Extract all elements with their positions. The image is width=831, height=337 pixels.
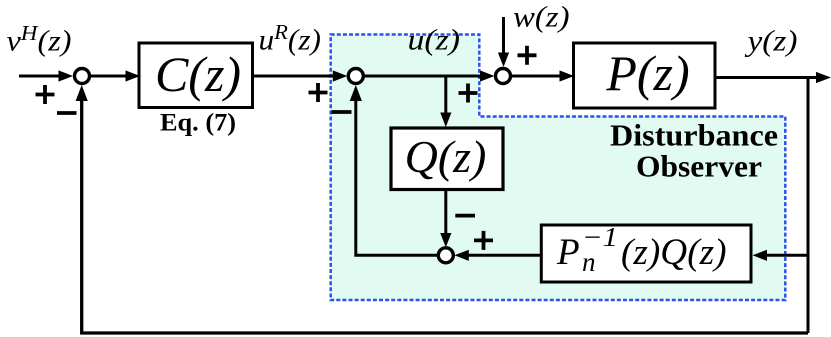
wire: C(z) to summer 2: [253, 75, 338, 78]
svg-text:P(z): P(z): [605, 45, 689, 101]
wire: summer 1 to C(z): [91, 75, 127, 78]
wire: summer 3 to P(z): [512, 75, 562, 78]
block C(z): [139, 43, 253, 108]
svg-text:C(z): C(z): [155, 46, 241, 102]
node: summing junction 4: [438, 248, 453, 263]
svg-text:(z)Q(z): (z)Q(z): [621, 232, 727, 273]
minus sign at summer 2: [332, 110, 352, 114]
plus sign at summer 2: [309, 83, 328, 102]
block Pn^-1(z)Q(z): [541, 225, 751, 282]
node: summing junction 1: [75, 69, 90, 84]
block P(z): [574, 43, 716, 108]
wire: bottom feedback to summer 1: [82, 98, 808, 333]
wire: Pn block to summer 4: [467, 254, 541, 257]
svg-text:Disturbance: Disturbance: [610, 117, 778, 152]
svg-text:u(z): u(z): [408, 24, 461, 57]
disturbance observer shaded dashed region: [331, 35, 786, 301]
wire: summer 2 to summer 3: [365, 75, 482, 78]
plus sign at summer 3: [518, 46, 537, 65]
svg-text:w(z): w(z): [513, 0, 570, 33]
svg-text:−1: −1: [582, 222, 618, 252]
svg-text:y(z): y(z): [744, 25, 797, 58]
svg-text:Q(z): Q(z): [405, 131, 487, 182]
node: summing junction 3 (w injection): [496, 69, 511, 84]
wire: P(z) to output y(z): [715, 76, 818, 79]
wire: w(z) down into summer 3: [502, 17, 505, 54]
svg-text:vH(z): vH(z): [7, 21, 72, 58]
wire: right feedback tap down from y line: [807, 79, 810, 333]
svg-text:P: P: [556, 232, 580, 273]
svg-text:Observer: Observer: [636, 148, 762, 183]
node: summing junction 2: [348, 69, 363, 84]
minus sign at summer 4: [455, 214, 475, 218]
wire: input to summer 1: [19, 75, 62, 78]
wire: into Pn block: [765, 254, 808, 257]
wire: Q(z) down to summer 4: [444, 190, 447, 237]
svg-text:Eq. (7): Eq. (7): [160, 110, 236, 137]
plus sign at Q tap: [459, 84, 478, 103]
plus sign at summer 1: [36, 85, 55, 104]
minus sign at summer 1: [57, 111, 77, 115]
wire: summer 4 left and up into summer 2: [356, 98, 439, 255]
block Q(z): [391, 128, 503, 190]
wire: tap down to Q(z): [444, 76, 447, 114]
svg-text:uR(z): uR(z): [259, 20, 322, 57]
plus sign at summer 4: [474, 231, 493, 250]
